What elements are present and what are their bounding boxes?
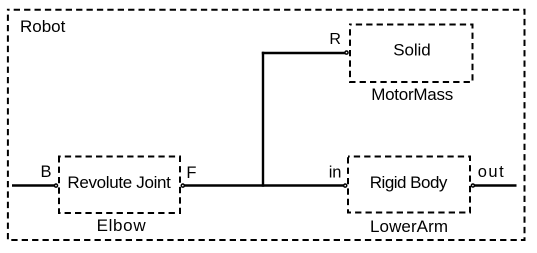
svg-text:out: out <box>478 163 504 181</box>
port B connector circle <box>54 184 57 187</box>
svg-text:Revolute Joint: Revolute Joint <box>67 173 171 192</box>
block Revolute Joint (Elbow) <box>59 157 180 214</box>
wire junction vertical branch <box>262 52 264 187</box>
svg-text:LowerArm: LowerArm <box>370 217 448 236</box>
wire out output <box>473 184 517 186</box>
svg-text:B: B <box>41 163 52 181</box>
block Solid (MotorMass) <box>350 25 473 83</box>
block Rigid Body (LowerArm) <box>348 157 470 213</box>
svg-text:F: F <box>186 164 196 182</box>
svg-text:Robot: Robot <box>20 17 66 36</box>
svg-text:Solid: Solid <box>393 40 430 59</box>
wire to R <box>262 52 346 54</box>
svg-text:Rigid Body: Rigid Body <box>370 173 448 192</box>
port R connector circle <box>345 51 348 54</box>
svg-text:in: in <box>329 164 342 182</box>
svg-text:Elbow: Elbow <box>97 216 147 235</box>
port out connector circle <box>471 184 474 187</box>
port in connector circle <box>344 184 347 187</box>
svg-text:R: R <box>329 31 341 48</box>
wire B input <box>12 184 56 186</box>
wire F to in <box>183 184 345 186</box>
svg-text:MotorMass: MotorMass <box>371 85 453 104</box>
port F connector circle <box>181 184 184 187</box>
